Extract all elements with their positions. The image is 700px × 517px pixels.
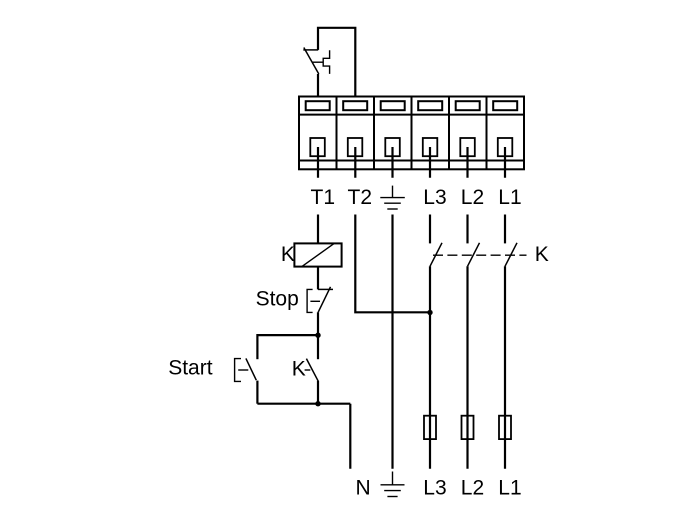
- svg-text:L1: L1: [498, 476, 521, 499]
- L1 wire down: [504, 266, 506, 468]
- fuse L3: [424, 416, 436, 439]
- contactor coil K: [294, 243, 341, 266]
- terminal block dividers: [337, 97, 487, 170]
- thermal switch lower wire to T1: [317, 74, 319, 97]
- svg-text:T2: T2: [348, 186, 373, 209]
- wire stop to node: [317, 312, 319, 335]
- svg-text:Stop: Stop: [256, 287, 299, 310]
- main contact L3 upper wire: [429, 215, 431, 244]
- main contact L2 (NO): [468, 243, 480, 266]
- fuse L2: [462, 416, 474, 439]
- thermal switch moving contact diagonal: [304, 48, 319, 75]
- earth wire down middle: [391, 215, 393, 469]
- svg-text:K: K: [535, 243, 549, 266]
- svg-text:L2: L2: [461, 476, 484, 499]
- PE ground symbol at label row: [380, 186, 405, 209]
- thermal link dash: [312, 61, 323, 63]
- main contact L1 upper wire: [504, 215, 506, 244]
- svg-text:L1: L1: [498, 186, 521, 209]
- start branch upper wire: [256, 334, 258, 359]
- svg-text:K: K: [292, 357, 306, 380]
- wire T2 column to L3 junction: [355, 215, 430, 313]
- start push button actuator: [235, 359, 241, 382]
- main contact L3 (NO): [430, 243, 442, 266]
- fuse L1: [499, 416, 511, 439]
- stop contact (NC): [318, 288, 333, 290]
- thermal element step symbol: [323, 50, 329, 74]
- svg-text:L2: L2: [461, 186, 484, 209]
- terminal pigtail wires through block bottom: [318, 147, 505, 178]
- wire T1 column to coil: [317, 215, 319, 244]
- stop push button actuator: [307, 289, 313, 312]
- svg-text:K: K: [281, 243, 295, 266]
- bottom horizontal wire to N: [257, 403, 350, 405]
- contactor linkage dashed line: [433, 254, 527, 256]
- terminal slot openings (top row): [306, 101, 518, 110]
- K aux contact upper wire: [317, 335, 319, 359]
- svg-text:L3: L3: [423, 476, 446, 499]
- svg-text:T1: T1: [311, 186, 336, 209]
- thermal switch loop wire (top bracket T1 to T2): [318, 28, 355, 97]
- wire coil to stop: [317, 267, 319, 290]
- node junction dot 3 (T2-L3): [427, 310, 432, 315]
- thermal switch fixed contact tick: [303, 49, 318, 51]
- node junction dot 1: [315, 333, 320, 338]
- terminal block outer body: [299, 97, 524, 170]
- terminal block bottom strip line: [299, 160, 524, 162]
- L3 wire down: [429, 266, 431, 468]
- node junction dot 2: [315, 401, 320, 406]
- terminal clamp squares (bottom row): [310, 138, 512, 156]
- start contact (NO): [246, 358, 256, 380]
- start branch lower wire: [256, 381, 258, 404]
- K aux contact (NO): [306, 359, 318, 382]
- L2 wire down: [466, 266, 468, 468]
- svg-text:L3: L3: [423, 186, 446, 209]
- K aux link dash: [305, 369, 311, 371]
- main contact L2 upper wire: [466, 215, 468, 244]
- terminal block top strip line: [299, 114, 524, 116]
- wire node to start branch: [257, 334, 318, 336]
- svg-text:N: N: [356, 476, 371, 499]
- svg-text:Start: Start: [168, 356, 213, 379]
- main contact L1 (NO): [505, 243, 517, 266]
- N wire down: [349, 404, 351, 469]
- bottom earth symbol: [381, 472, 405, 497]
- K aux lower wire: [317, 381, 319, 404]
